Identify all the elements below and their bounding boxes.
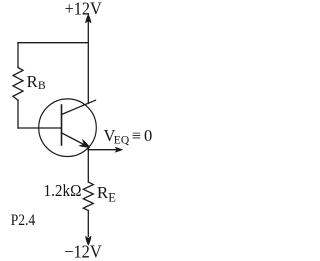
svg-text:R: R	[97, 183, 109, 202]
svg-text:EQ: EQ	[114, 135, 130, 147]
svg-text:R: R	[27, 72, 38, 91]
svg-text:E: E	[108, 190, 116, 204]
svg-text:B: B	[38, 79, 46, 92]
svg-text:−12V: −12V	[64, 242, 102, 261]
svg-text:+12V: +12V	[65, 0, 102, 19]
svg-text:P2.4: P2.4	[11, 212, 35, 229]
svg-text:≡: ≡	[132, 126, 141, 145]
svg-text:1.2kΩ: 1.2kΩ	[44, 181, 82, 200]
svg-text:0: 0	[144, 126, 152, 145]
